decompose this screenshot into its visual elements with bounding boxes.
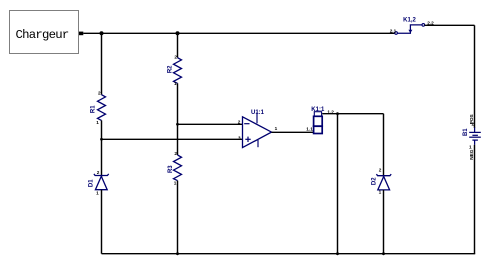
- svg-text:U1:1: U1:1: [251, 110, 265, 116]
- svg-text:2: 2: [379, 168, 382, 173]
- svg-text:1: 1: [379, 190, 382, 195]
- wire to op-amp + input: [102, 138, 243, 140]
- wire right vertical top: [474, 25, 476, 128]
- svg-text:K1:1: K1:1: [311, 107, 325, 113]
- wire R2 top: [177, 33, 179, 57]
- wire bottom rail: [102, 253, 476, 255]
- svg-text:R3: R3: [168, 165, 174, 173]
- node junction R2/top rail: [176, 31, 180, 35]
- resistor R1: [90, 91, 105, 125]
- Chargeur output terminal: [79, 32, 83, 36]
- svg-text:R1: R1: [90, 105, 96, 113]
- wire D1 to bottom rail: [101, 190, 103, 254]
- op-amp U1:1: [238, 110, 278, 148]
- svg-text:R2: R2: [168, 65, 174, 73]
- svg-text:1: 1: [174, 181, 177, 186]
- resistor R2: [168, 54, 182, 86]
- wire top rail: [83, 32, 395, 34]
- battery B1: [463, 114, 481, 159]
- svg-text:2: 2: [238, 119, 241, 124]
- node junction at (177.5,124): [176, 123, 179, 126]
- svg-text:1: 1: [174, 81, 177, 86]
- svg-text:1: 1: [96, 191, 99, 196]
- svg-text:1: 1: [275, 126, 278, 131]
- svg-text:2: 2: [472, 122, 475, 127]
- svg-text:D1: D1: [89, 179, 95, 187]
- svg-text:Chargeur: Chargeur: [15, 28, 68, 42]
- svg-text:1: 1: [96, 120, 99, 125]
- svg-text:B1: B1: [463, 128, 469, 136]
- node junction at (337.7,114): [336, 112, 339, 115]
- node junction at (101,139): [100, 138, 103, 141]
- wire D2 to bottom rail: [383, 190, 385, 254]
- wire battery to bottom rail: [474, 145, 476, 254]
- wire to D2: [383, 114, 385, 177]
- svg-text:2.1: 2.1: [390, 28, 397, 33]
- wire coil return to bottom rail: [337, 114, 339, 254]
- svg-text:2: 2: [174, 151, 177, 156]
- wire R1 to D1: [101, 120, 103, 176]
- wire R2 to R3: [177, 83, 179, 155]
- relay coil K1:1: [306, 107, 334, 134]
- wire to op-amp - input: [178, 123, 243, 125]
- wire op-amp output to coil: [272, 131, 314, 133]
- node junction at (177.5,253.7): [176, 252, 179, 255]
- node junction at (383.5,253.7): [382, 252, 385, 255]
- Chargeur block: [10, 11, 79, 54]
- svg-text:D2: D2: [372, 177, 378, 185]
- svg-text:2: 2: [97, 170, 100, 175]
- wire contact to right corner: [425, 24, 475, 26]
- relay contact K1,2: [390, 18, 434, 35]
- zener diode D2: [372, 168, 392, 195]
- wire coil right lead: [322, 113, 383, 115]
- svg-text:NEG: NEG: [469, 149, 474, 160]
- svg-text:3: 3: [238, 135, 241, 140]
- node junction at (337.7,253.7): [336, 252, 339, 255]
- svg-text:1: 1: [469, 144, 472, 149]
- node junction R1/top rail: [100, 31, 104, 35]
- svg-text:2: 2: [174, 54, 177, 59]
- svg-text:2: 2: [98, 91, 101, 96]
- zener diode D1: [89, 170, 109, 196]
- resistor R3: [168, 151, 181, 186]
- wire R3 to bottom rail: [177, 181, 179, 254]
- svg-text:1.1: 1.1: [306, 127, 313, 132]
- wire R1 top: [101, 33, 103, 94]
- svg-text:K1,2: K1,2: [403, 18, 416, 24]
